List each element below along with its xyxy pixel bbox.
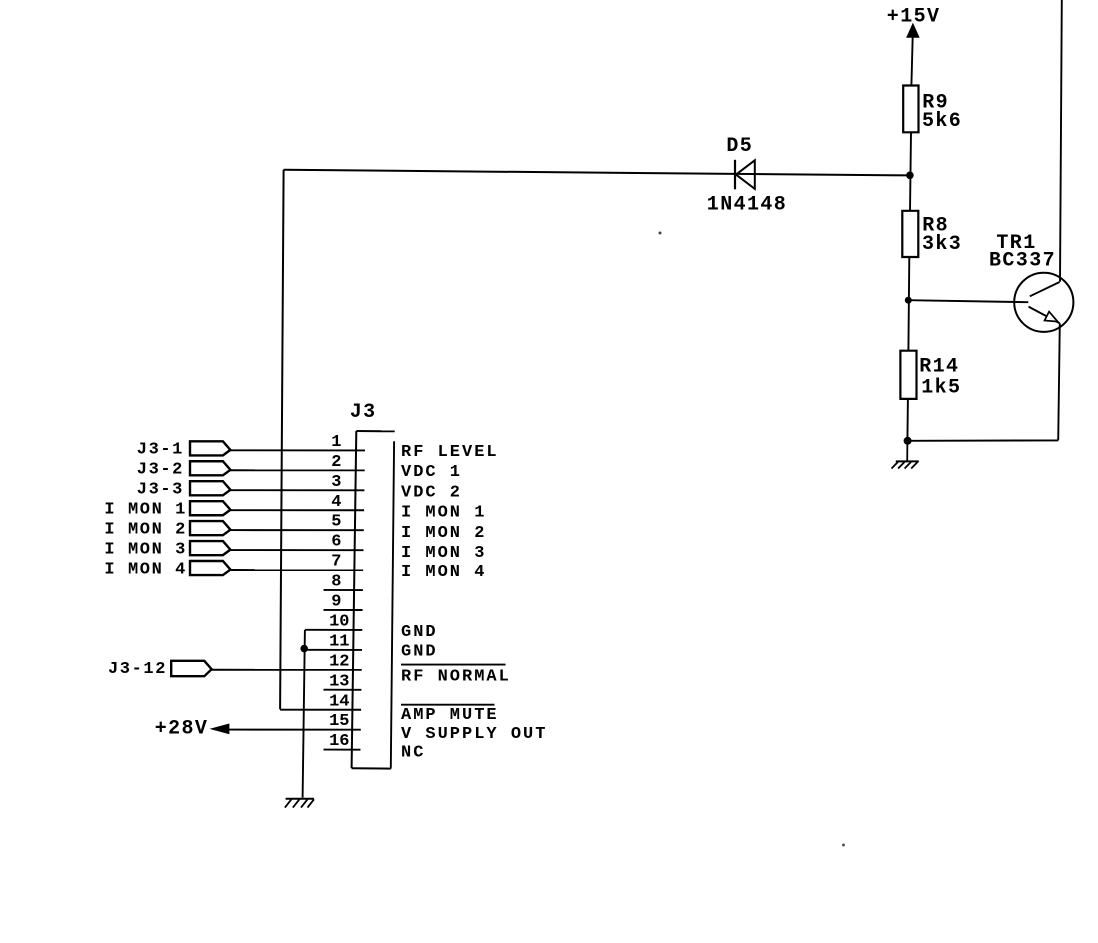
- svg-text:AMP MUTE: AMP MUTE: [401, 706, 499, 725]
- svg-text:I MON 3: I MON 3: [401, 544, 486, 563]
- svg-text:7: 7: [331, 553, 341, 572]
- svg-text:+15V: +15V: [887, 5, 941, 28]
- svg-text:I MON 4: I MON 4: [401, 563, 486, 582]
- svg-text:D5: D5: [726, 135, 753, 158]
- svg-text:16: 16: [329, 732, 349, 751]
- svg-text:R14: R14: [919, 356, 959, 379]
- svg-text:9: 9: [331, 593, 341, 612]
- svg-text:RF LEVEL: RF LEVEL: [401, 443, 499, 462]
- svg-text:GND: GND: [401, 643, 438, 662]
- svg-text:BC337: BC337: [989, 250, 1056, 273]
- svg-text:3k3: 3k3: [922, 233, 962, 256]
- svg-text:I MON 3: I MON 3: [104, 540, 187, 559]
- svg-text:6: 6: [331, 533, 341, 552]
- svg-text:VDC 2: VDC 2: [401, 483, 462, 502]
- svg-text:I MON 1: I MON 1: [104, 500, 187, 519]
- svg-text:RF NORMAL: RF NORMAL: [401, 668, 511, 687]
- svg-text:2: 2: [331, 453, 341, 472]
- svg-text:I MON 2: I MON 2: [401, 524, 486, 543]
- svg-text:15: 15: [329, 712, 349, 731]
- svg-text:I MON 1: I MON 1: [401, 504, 486, 523]
- svg-text:I MON 4: I MON 4: [104, 560, 187, 579]
- svg-text:3: 3: [331, 473, 341, 492]
- svg-text:J3-2: J3-2: [137, 461, 184, 480]
- svg-text:1k5: 1k5: [921, 376, 961, 399]
- svg-text:J3: J3: [350, 401, 377, 424]
- svg-text:J3-3: J3-3: [137, 481, 184, 500]
- svg-text:I MON 2: I MON 2: [104, 520, 187, 539]
- svg-text:J3-1: J3-1: [137, 441, 184, 460]
- svg-text:10: 10: [329, 612, 349, 631]
- svg-text:5k6: 5k6: [922, 110, 962, 133]
- svg-text:13: 13: [329, 672, 349, 691]
- svg-text:1: 1: [331, 433, 341, 452]
- svg-text:VDC 1: VDC 1: [401, 463, 462, 482]
- svg-text:4: 4: [331, 493, 341, 512]
- svg-text:8: 8: [331, 573, 341, 592]
- svg-text:12: 12: [329, 652, 349, 671]
- svg-text:5: 5: [331, 513, 341, 532]
- svg-text:NC: NC: [401, 744, 425, 763]
- svg-text:V SUPPLY OUT: V SUPPLY OUT: [401, 725, 547, 744]
- svg-text:GND: GND: [401, 623, 438, 642]
- svg-text:+28V: +28V: [155, 718, 209, 741]
- svg-text:J3-12: J3-12: [108, 660, 167, 679]
- svg-text:11: 11: [329, 632, 349, 651]
- svg-text:1N4148: 1N4148: [707, 193, 787, 216]
- svg-text:14: 14: [329, 692, 349, 711]
